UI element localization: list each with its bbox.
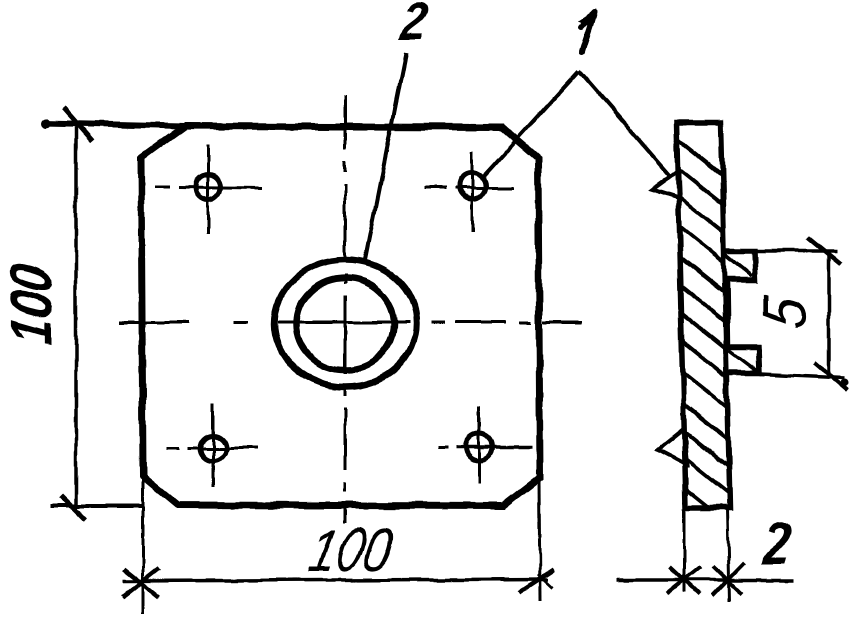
dimension 2 line: [616, 578, 795, 582]
central boss outer circle: [275, 260, 417, 387]
horizontal centerline: [118, 321, 582, 324]
dimension 2 right extension: [727, 509, 729, 601]
vertical centerline: [344, 95, 347, 523]
dimension 5 bottom extension: [760, 374, 845, 378]
left dimension bottom tick: [61, 496, 85, 520]
left dimension line 100: [74, 124, 78, 506]
dimension 2 right X tick: [712, 563, 744, 596]
hole top-left: [196, 175, 221, 200]
dimension 2 left X tick: [667, 566, 701, 593]
countersink notch bottom: [658, 429, 687, 465]
plate bottom edge left extension: [50, 504, 143, 508]
plate front view: chamfered outline: [141, 126, 540, 506]
svg-text:100: 100: [304, 515, 398, 584]
hatch in top tab: [725, 254, 752, 276]
hole top-right: [459, 173, 485, 199]
left dimension top tick: [63, 108, 92, 141]
countersink notch top (arrowhead of leader 1): [652, 171, 680, 199]
label 1 (callout): [581, 13, 594, 52]
dimension 5 top tick: [808, 237, 841, 264]
dimension 2 (thickness) left extension: [683, 509, 686, 592]
plate front view: top edge with left extension: [42, 123, 502, 127]
svg-text:100: 100: [0, 261, 64, 348]
blob at left end of top edge: [41, 118, 51, 128]
bottom dimension left extension: [142, 478, 145, 615]
leader of label 2: [365, 53, 406, 260]
hole bottom-left: [200, 435, 226, 461]
central hole inner circle: [296, 278, 394, 370]
boss protrusion outline (right side tabs): [723, 251, 759, 373]
hatch in bottom tab: [729, 350, 757, 371]
dimension 5 top extension: [731, 249, 838, 253]
leader of label 1 to side view: [579, 71, 672, 178]
side view bar outline: [677, 122, 730, 508]
dimension 5 line: [827, 251, 831, 378]
bottom dimension line 100: [123, 579, 548, 581]
bottom dimension left X tick: [123, 568, 160, 597]
bottom dimension right extension: [539, 480, 540, 601]
hole bottom-right: [466, 434, 493, 461]
bottom dimension right tick: [519, 569, 554, 592]
dimension 5 bottom tick: [814, 362, 848, 391]
blob near bottom tick: [841, 379, 849, 387]
leader of label 1 to top-right hole: [482, 71, 579, 178]
